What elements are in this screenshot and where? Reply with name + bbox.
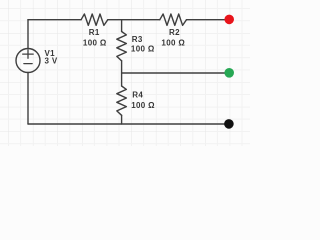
wire: R2 to red terminal xyxy=(187,19,230,21)
wire: top rail from corner to R1 xyxy=(28,19,81,21)
V1 minus sign xyxy=(24,63,32,65)
wire: R3 bottom through node B to R4 top xyxy=(121,61,123,86)
svg-text:R3: R3 xyxy=(132,35,143,44)
voltage source V1 circle xyxy=(16,49,40,73)
resistor R1 xyxy=(81,14,108,25)
red terminal node xyxy=(224,15,234,25)
wire: bottom rail to black terminal xyxy=(28,123,229,125)
svg-text:100 Ω: 100 Ω xyxy=(83,38,107,47)
green terminal node xyxy=(224,68,234,78)
resistor R4 xyxy=(117,86,127,115)
wire: node A down to R3 xyxy=(121,20,123,32)
svg-text:3 V: 3 V xyxy=(45,57,58,66)
black terminal node xyxy=(224,119,234,129)
svg-text:R1: R1 xyxy=(89,28,100,37)
resistor R3 xyxy=(117,32,127,61)
wire: middle rail node B to green terminal xyxy=(122,72,229,74)
svg-text:100 Ω: 100 Ω xyxy=(161,38,185,47)
V1 plus sign xyxy=(23,50,34,58)
wire: V1 top lead up to top-left corner xyxy=(27,20,29,49)
wire: R4 bottom to bottom rail xyxy=(121,115,123,124)
resistor R2 xyxy=(160,14,187,25)
svg-text:R2: R2 xyxy=(169,28,180,37)
svg-text:100 Ω: 100 Ω xyxy=(131,101,155,110)
svg-text:100 Ω: 100 Ω xyxy=(131,45,155,54)
wire: R1 to node A to R2 xyxy=(108,19,160,21)
wire: V1 bottom lead down to bottom-left corner xyxy=(27,73,29,125)
svg-text:R4: R4 xyxy=(132,91,143,100)
